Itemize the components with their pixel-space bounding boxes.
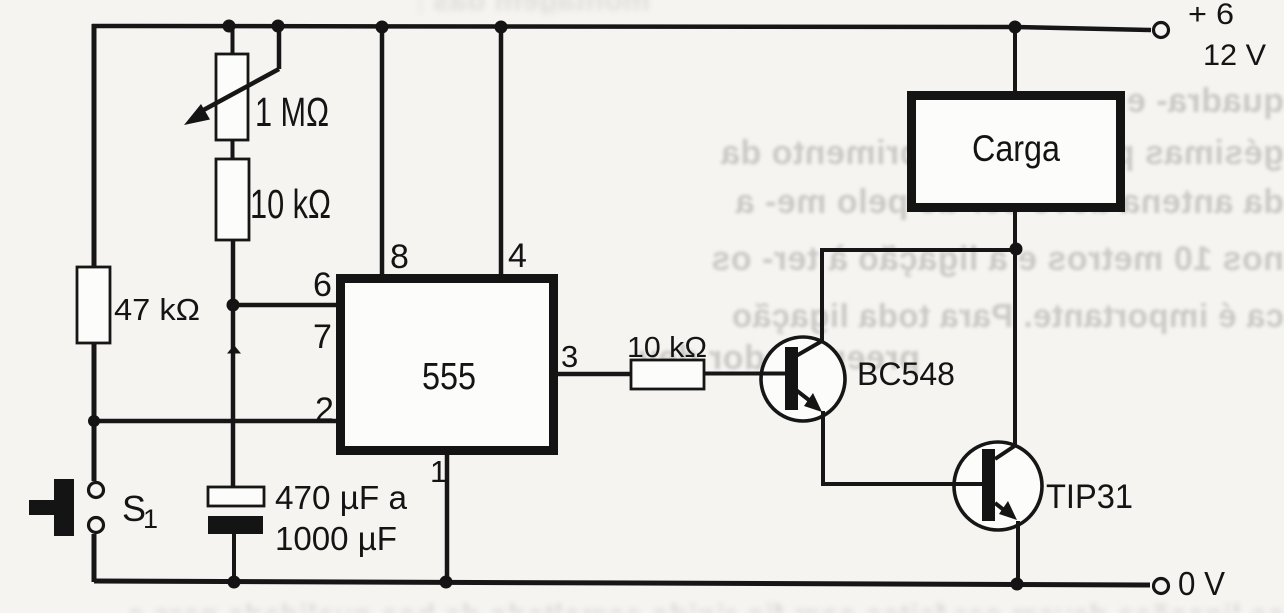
svg-text:6: 6 — [313, 266, 332, 304]
svg-text:10 kΩ: 10 kΩ — [627, 332, 707, 364]
svg-text:47 kΩ: 47 kΩ — [114, 292, 200, 327]
svg-text:1 MΩ: 1 MΩ — [255, 89, 329, 135]
svg-text:2: 2 — [315, 391, 334, 429]
svg-text:1: 1 — [430, 454, 447, 489]
svg-text:TIP31: TIP31 — [1046, 478, 1133, 516]
svg-text:Carga: Carga — [972, 128, 1060, 169]
svg-text:10 kΩ: 10 kΩ — [250, 181, 331, 227]
svg-text:+ 6: + 6 — [1188, 0, 1234, 31]
svg-text:1000 µF: 1000 µF — [275, 520, 397, 557]
svg-text:4: 4 — [508, 237, 527, 275]
svg-text:7: 7 — [313, 318, 332, 356]
svg-text:8: 8 — [390, 238, 409, 276]
svg-text:470 µF a: 470 µF a — [275, 479, 408, 516]
svg-text:1: 1 — [143, 504, 158, 534]
svg-text:0 V: 0 V — [1178, 565, 1225, 602]
svg-text:BC548: BC548 — [857, 356, 955, 392]
svg-text:3: 3 — [561, 339, 578, 374]
svg-text:12 V: 12 V — [1203, 39, 1266, 72]
svg-text:555: 555 — [422, 356, 476, 398]
